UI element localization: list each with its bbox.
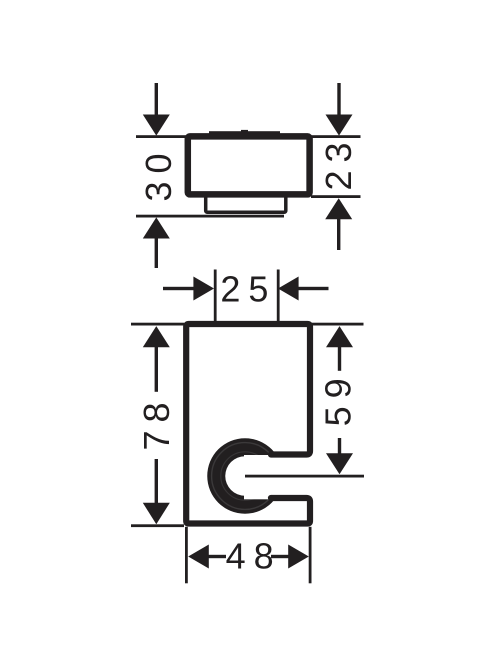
dim 48: shaft across <box>208 555 289 558</box>
top view: holder body rectangle <box>188 136 310 194</box>
svg-text:30: 30 <box>138 145 179 201</box>
svg-text:59: 59 <box>317 370 358 426</box>
dim 59: bottom arrowhead (down) <box>326 453 353 474</box>
svg-text:23: 23 <box>318 134 359 190</box>
dim 48: text backing <box>226 540 271 573</box>
dim 23: top arrowhead (down) <box>326 115 353 136</box>
dim 25: left arrow shaft <box>163 287 194 290</box>
dim 30: top extension line <box>136 135 193 138</box>
top view: base plate (behind body) <box>206 191 286 212</box>
dim 48: left arrowhead (left) <box>188 545 209 569</box>
side view: hook ring (C shape body) <box>207 438 283 514</box>
top view: center bump on ridge <box>241 130 248 133</box>
dim 30: bottom arrowhead (up) <box>143 217 170 238</box>
dim 78: bottom arrow shaft <box>155 459 158 504</box>
dim 78: bottom arrowhead (down) <box>143 503 170 525</box>
dim 59: top arrowhead (up) <box>326 326 353 347</box>
side view: center thin line through hook mouth (ext line for 59) <box>245 475 364 478</box>
dim 23: top arrow shaft <box>337 83 340 116</box>
dim 48: left extension line <box>185 527 188 584</box>
dim 78: top arrowhead (up) <box>143 326 170 347</box>
dim 25: right arrowhead (left) <box>278 277 299 301</box>
dim 48: right arrowhead (right) <box>288 545 309 569</box>
side view: hook mouth white channel <box>244 455 312 499</box>
dim 78: top arrow shaft <box>155 347 158 392</box>
side view: hook ring inner highlight arc outer <box>212 443 279 510</box>
dim 30: top arrowhead (down) <box>143 115 170 136</box>
dim 25: left extension line <box>214 270 217 322</box>
dim 48: right extension line <box>309 527 312 584</box>
dim 59: bottom arrow shaft <box>338 438 341 454</box>
dim 78: top extension line <box>131 323 184 326</box>
dim 23: bottom arrow shaft <box>337 219 340 250</box>
dim 59: top extension line <box>312 323 364 326</box>
dim 30: bottom extension line <box>136 215 284 218</box>
dim 78: bottom extension line <box>131 524 184 527</box>
dim 30: bottom arrow shaft <box>155 238 158 268</box>
side view: hook ring inner highlight arc inner <box>221 452 269 500</box>
svg-text:48: 48 <box>226 536 282 577</box>
dim 23: top extension line <box>308 135 361 138</box>
dim 30: top arrow shaft <box>155 83 158 116</box>
dim 23: bottom arrowhead (up) <box>325 198 352 219</box>
dim 25: right extension line <box>277 270 280 322</box>
top view: ridge line on top of holder body <box>209 131 280 134</box>
dim 25: right arrow shaft <box>298 287 329 290</box>
dim 59: top arrow shaft <box>338 347 341 371</box>
dim 23: bottom extension line <box>311 195 361 198</box>
side view: bracket outline <box>186 324 310 524</box>
svg-text:78: 78 <box>136 394 177 450</box>
dim 25: left arrowhead (right) <box>193 277 214 301</box>
svg-text:25: 25 <box>220 269 276 310</box>
